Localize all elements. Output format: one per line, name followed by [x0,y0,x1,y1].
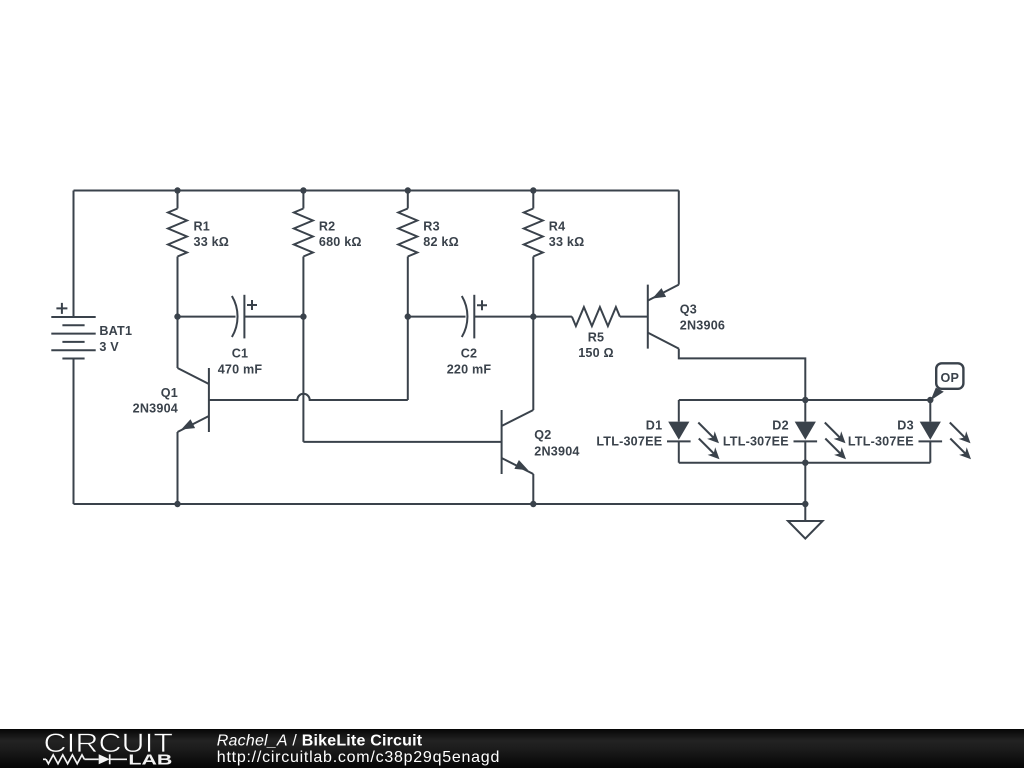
svg-text:2N3904: 2N3904 [534,444,579,458]
node R1 bottom / C1 left [174,313,180,319]
battery BAT1 [51,303,95,359]
svg-text:33 kΩ: 33 kΩ [549,235,585,249]
svg-text:D1: D1 [646,419,663,433]
svg-text:Q1: Q1 [161,386,178,400]
svg-text:3 V: 3 V [99,340,119,354]
svg-text:LTL-307EE: LTL-307EE [723,434,789,448]
svg-text:R3: R3 [423,220,440,234]
svg-text:33 kΩ: 33 kΩ [194,235,230,249]
wire node B vertical (C1 right to Q2 base row) [302,317,304,442]
svg-text:C2: C2 [461,347,478,361]
wire Q2 base horizontal [303,441,501,443]
ground symbol [788,521,823,539]
node ground junction [802,501,808,507]
svg-text:82 kΩ: 82 kΩ [423,235,459,249]
wire ground feed vertical [804,463,806,521]
svg-text:LTL-307EE: LTL-307EE [596,434,662,448]
wire top power rail [74,190,679,192]
transistor Q2 [502,317,534,504]
svg-text:R5: R5 [588,330,605,344]
svg-text:D3: D3 [897,419,914,433]
svg-text:http://circuitlab.com/c38p29q5: http://circuitlab.com/c38p29q5enagd [217,749,500,766]
resistor R2 [294,191,313,317]
svg-text:220 mF: 220 mF [447,362,492,376]
node R3 top [405,187,411,193]
resistor R3 [398,191,417,317]
LED D2 [794,400,847,463]
svg-text:R1: R1 [194,220,211,234]
svg-text:OP: OP [940,371,959,385]
svg-text:2N3904: 2N3904 [133,402,178,416]
svg-text:R2: R2 [319,220,336,234]
node R1 top [174,187,180,193]
resistor R5 [533,307,648,326]
svg-text:LTL-307EE: LTL-307EE [848,434,914,448]
wire node C vertical (Q1 base to R3 bottom) [407,317,409,400]
svg-text:LAB: LAB [128,751,172,768]
svg-text:2N3906: 2N3906 [680,319,725,333]
node R2 top [300,187,306,193]
svg-text:470 mF: 470 mF [218,362,263,376]
wire bottom ground rail [74,503,806,505]
resistor R4 [524,191,543,317]
wire battery positive lead [73,191,75,318]
svg-text:150 Ω: 150 Ω [578,346,614,360]
node Q2 emitter bottom [530,501,536,507]
node LED top rail right / OP [927,397,933,403]
svg-text:C1: C1 [232,347,249,361]
LED D3 [919,400,972,463]
flag OP [931,363,964,400]
capacitor C2 [408,295,534,339]
capacitor C1 [178,295,304,339]
node C2 right / R4 bottom [530,313,536,319]
node junction dots [174,187,933,507]
svg-text:680 kΩ: 680 kΩ [319,235,362,249]
transistor Q1 [178,317,209,504]
wire battery negative lead [73,359,75,505]
svg-text:R4: R4 [549,220,566,234]
svg-text:Q3: Q3 [680,303,697,317]
CircuitLab logo resistor-diode symbol [43,754,127,764]
node Q1 emitter bottom [174,501,180,507]
footer bar [0,728,1024,768]
node R3 bottom / C2 left [405,313,411,319]
transistor Q3 [648,191,806,401]
svg-text:BAT1: BAT1 [99,324,132,338]
wire LED top rail [679,399,931,401]
node LED top rail center [802,397,808,403]
node LED bottom rail center [802,460,808,466]
svg-text:D2: D2 [772,419,789,433]
wire Q1 base horizontal with hop [209,394,408,400]
svg-text:Q2: Q2 [534,428,551,442]
wire LED bottom rail [679,462,931,464]
resistor R1 [168,191,187,317]
svg-text:Rachel_A / BikeLite Circuit: Rachel_A / BikeLite Circuit [217,733,423,750]
node R4 top [530,187,536,193]
LED D1 [667,400,720,463]
node C1 right / R2 bottom [300,313,306,319]
